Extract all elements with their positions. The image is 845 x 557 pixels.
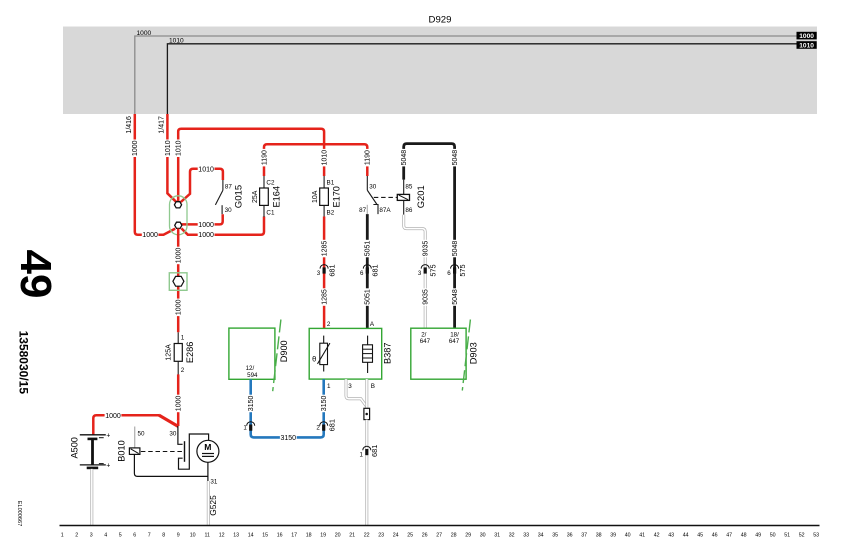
svg-text:D903: D903 (469, 342, 479, 364)
splice junction box (364, 408, 370, 419)
svg-text:87A: 87A (379, 207, 391, 214)
svg-text:37: 37 (581, 533, 587, 539)
svg-text:42: 42 (654, 533, 660, 539)
svg-text:31: 31 (494, 533, 500, 539)
starter relay coil B010 (116, 440, 207, 476)
svg-text:1000: 1000 (176, 396, 183, 412)
svg-text:1/416: 1/416 (126, 116, 133, 134)
svg-text:3: 3 (348, 383, 352, 390)
switch G015 (215, 180, 244, 214)
svg-text:A500: A500 (69, 437, 79, 458)
svg-text:87: 87 (225, 183, 233, 190)
svg-text:30: 30 (225, 207, 233, 214)
svg-text:3: 3 (418, 270, 422, 277)
wire 1285 from E170 to B387 pin 2 (320, 217, 328, 329)
svg-text:B2: B2 (327, 210, 335, 217)
svg-text:26: 26 (422, 533, 428, 539)
svg-text:1000: 1000 (176, 248, 183, 264)
svg-text:1010: 1010 (169, 38, 184, 45)
svg-text:5051: 5051 (365, 241, 372, 257)
svg-text:G525: G525 (208, 495, 218, 516)
wire 1190 rail to fuses and relay contact (260, 144, 371, 176)
svg-text:38: 38 (596, 533, 602, 539)
svg-text:8: 8 (162, 533, 165, 539)
wire 1000 feed in band (135, 30, 797, 114)
svg-text:33: 33 (523, 533, 529, 539)
svg-text:1190: 1190 (365, 150, 372, 165)
svg-text:49: 49 (11, 250, 60, 299)
wire 1010 feed in band (167, 38, 796, 114)
starter motor contact term 30 (169, 426, 182, 444)
svg-text:681: 681 (370, 445, 379, 457)
svg-text:22: 22 (364, 533, 370, 539)
svg-text:1010: 1010 (198, 166, 214, 173)
battery ground wire (90, 469, 93, 526)
svg-text:575: 575 (458, 264, 467, 276)
svg-text:39: 39 (610, 533, 616, 539)
svg-text:B387: B387 (383, 342, 393, 363)
wire 5051 from contact 87 to B387 pin A (364, 214, 372, 328)
svg-text:32: 32 (509, 533, 515, 539)
connector (green stadium) with junctions (170, 196, 188, 235)
svg-text:3: 3 (317, 270, 321, 277)
svg-text:1285: 1285 (322, 241, 329, 257)
svg-text:1010: 1010 (322, 150, 329, 166)
svg-text:5048: 5048 (452, 289, 459, 305)
svg-text:27: 27 (436, 533, 442, 539)
connector 6/681 on wire 5051 (360, 264, 380, 277)
motor M1 (197, 440, 219, 485)
svg-text:52: 52 (799, 533, 805, 539)
svg-text:30: 30 (169, 430, 177, 437)
svg-text:17: 17 (291, 533, 297, 539)
svg-text:18: 18 (306, 533, 312, 539)
svg-text:47: 47 (726, 533, 732, 539)
starter fixed contact and motor loop (179, 434, 209, 469)
svg-text:3150: 3150 (321, 396, 328, 412)
fuse E286 (166, 332, 196, 374)
svg-text:21: 21 (349, 533, 355, 539)
frame ruler (60, 526, 820, 539)
svg-text:G015: G015 (233, 185, 244, 208)
svg-text:1: 1 (359, 452, 363, 459)
junction circle top (174, 202, 181, 208)
svg-text:31: 31 (210, 478, 218, 485)
svg-text:13: 13 (233, 533, 239, 539)
svg-text:1358030/15: 1358030/15 (17, 331, 31, 395)
svg-text:30: 30 (480, 533, 486, 539)
term 50 stub (135, 427, 145, 448)
connector 2/681 on wire 3150 right (316, 419, 336, 432)
svg-text:1190: 1190 (261, 150, 268, 165)
svg-text:7: 7 (148, 533, 151, 539)
svg-text:9: 9 (177, 533, 180, 539)
starter contact bar (184, 441, 186, 462)
svg-text:35: 35 (552, 533, 558, 539)
svg-text:+: + (106, 462, 110, 469)
svg-text:E170: E170 (332, 186, 342, 207)
svg-text:681: 681 (328, 264, 337, 276)
svg-text:647: 647 (420, 338, 431, 345)
svg-text:40: 40 (625, 533, 631, 539)
svg-text:46: 46 (712, 533, 718, 539)
svg-text:30: 30 (369, 183, 377, 190)
svg-text:5048: 5048 (401, 150, 408, 166)
wire 1000 from E286 to starter (174, 374, 182, 426)
node 1010 terminal box (797, 41, 817, 49)
svg-text:10A: 10A (312, 190, 319, 203)
svg-text:D929: D929 (429, 15, 452, 26)
svg-text:49: 49 (755, 533, 761, 539)
thermistor inside B387 (312, 336, 330, 372)
svg-text:5: 5 (119, 533, 122, 539)
svg-text:E286: E286 (185, 342, 195, 363)
svg-text:θ: θ (312, 354, 316, 363)
svg-text:29: 29 (465, 533, 471, 539)
svg-text:1: 1 (243, 425, 247, 432)
svg-text:51: 51 (784, 533, 790, 539)
node D929 bus bar band (63, 15, 817, 114)
svg-text:1000: 1000 (176, 299, 183, 315)
svg-text:9035: 9035 (423, 241, 430, 257)
svg-text:19: 19 (320, 533, 326, 539)
svg-text:36: 36 (567, 533, 573, 539)
wire 3150 loop B387 pin1 to D900 pin12 (247, 379, 331, 442)
svg-text:86: 86 (405, 207, 413, 214)
wire 1010 from 1/417 down to connector (158, 114, 176, 202)
svg-text:50: 50 (138, 430, 146, 437)
svg-text:1: 1 (61, 533, 64, 539)
svg-text:16: 16 (277, 533, 283, 539)
svg-text:2: 2 (327, 321, 331, 328)
svg-text:2: 2 (75, 533, 78, 539)
svg-text:5048: 5048 (452, 241, 459, 257)
svg-text:125A: 125A (166, 344, 173, 361)
svg-text:43: 43 (668, 533, 674, 539)
svg-text:87: 87 (359, 207, 367, 214)
svg-text:44: 44 (683, 533, 689, 539)
svg-text:41: 41 (639, 533, 645, 539)
svg-text:24: 24 (393, 533, 399, 539)
svg-text:G201: G201 (415, 185, 426, 208)
svg-text:1285: 1285 (322, 289, 329, 305)
svg-text:1010: 1010 (799, 42, 814, 49)
svg-text:23: 23 (378, 533, 384, 539)
svg-text:B: B (371, 383, 375, 390)
svg-text:5048: 5048 (452, 150, 459, 166)
svg-text:3150: 3150 (281, 435, 297, 442)
svg-text:1010: 1010 (165, 140, 172, 156)
svg-text:9035: 9035 (423, 289, 430, 305)
svg-text:15: 15 (262, 533, 268, 539)
svg-text:681: 681 (371, 264, 380, 276)
ground G525 (208, 481, 218, 526)
connector 6/575 on wire 5048 (447, 264, 467, 277)
connector 1 on wire 3150 left (243, 422, 254, 432)
svg-text:E164: E164 (272, 186, 282, 207)
wire 1010 branch from horizontal rail (174, 129, 324, 203)
svg-text:34: 34 (538, 533, 544, 539)
svg-text:12: 12 (219, 533, 225, 539)
svg-text:1000: 1000 (198, 222, 214, 229)
svg-text:11: 11 (204, 533, 210, 539)
svg-text:1/417: 1/417 (158, 116, 165, 134)
svg-text:B010: B010 (116, 440, 126, 461)
svg-text:C1: C1 (266, 210, 275, 217)
wire 1010 hook to switch G015 term 87 (181, 165, 223, 202)
svg-text:1010: 1010 (176, 140, 183, 156)
svg-text:2: 2 (316, 425, 320, 432)
relay contact G201 30/87/87A (359, 176, 397, 214)
heater resistor inside B387 (363, 336, 373, 373)
svg-text:M: M (204, 442, 211, 452)
svg-text:14: 14 (248, 533, 254, 539)
wire 1000 bus right to fuse E164 (181, 217, 264, 240)
battery A500 (69, 432, 110, 469)
svg-text:85: 85 (405, 183, 413, 190)
wire 1000 down to E286 (174, 229, 182, 333)
relay G201 coil (397, 180, 426, 215)
svg-text:575: 575 (429, 264, 438, 276)
ECU D900 box (229, 320, 289, 392)
wire 1000 from 1/416 down to bus (126, 114, 175, 239)
svg-text:53: 53 (813, 533, 819, 539)
svg-text:25A: 25A (252, 190, 259, 203)
wire 5048 supply rail (400, 144, 459, 329)
svg-text:3: 3 (90, 533, 93, 539)
connector 3/681 on wire 1285 (317, 264, 337, 277)
svg-text:C2: C2 (266, 179, 275, 186)
fuse E164 (252, 176, 282, 217)
svg-text:6: 6 (133, 533, 136, 539)
svg-text:50: 50 (770, 533, 776, 539)
svg-text:10: 10 (190, 533, 196, 539)
connector 1/681 on gray wire (359, 445, 379, 459)
svg-text:28: 28 (451, 533, 457, 539)
svg-text:1000: 1000 (799, 33, 814, 40)
svg-text:D900: D900 (279, 340, 289, 362)
svg-text:6: 6 (360, 270, 364, 277)
wire 1000 battery feed to starter term 30 (93, 412, 178, 435)
junction circle bottom (175, 222, 182, 228)
svg-text:+: + (106, 432, 110, 439)
svg-text:5051: 5051 (365, 289, 372, 305)
svg-text:20: 20 (335, 533, 341, 539)
svg-text:48: 48 (741, 533, 747, 539)
svg-text:2: 2 (181, 367, 185, 374)
svg-text:1000: 1000 (198, 232, 214, 239)
page number 49 (11, 250, 60, 299)
wire down to connector 1/681 and frame (365, 420, 368, 526)
svg-text:3150: 3150 (248, 396, 255, 412)
svg-text:594: 594 (247, 372, 258, 379)
svg-text:1: 1 (327, 383, 331, 390)
svg-text:45: 45 (697, 533, 703, 539)
node 1000 terminal box (797, 32, 817, 40)
connector 3/575 on wire 9035 (418, 264, 438, 277)
svg-text:1000: 1000 (142, 232, 158, 239)
wire 9035 from coil 86 to D903 (404, 215, 430, 328)
plot id EL000667 (16, 501, 22, 527)
svg-text:25: 25 (407, 533, 413, 539)
wire from B387 pin B (367, 379, 375, 408)
wire 1000 switch return to connector (181, 214, 223, 229)
wire from B387 pin 3 (346, 379, 367, 407)
svg-text:1000: 1000 (105, 413, 121, 420)
fuse E170 (312, 176, 342, 217)
flame glow plug B387 box (309, 321, 392, 379)
svg-text:681: 681 (328, 419, 337, 431)
document number 1358030/15 (17, 331, 31, 395)
ECU D903 box (411, 320, 479, 391)
svg-text:4: 4 (104, 533, 107, 539)
svg-text:EL000667: EL000667 (16, 501, 22, 527)
svg-text:1000: 1000 (137, 30, 152, 37)
svg-text:1: 1 (181, 335, 185, 342)
svg-text:B1: B1 (327, 179, 335, 186)
svg-text:1000: 1000 (132, 140, 139, 156)
inline connector (hexagon) (169, 273, 187, 291)
svg-text:647: 647 (449, 338, 460, 345)
svg-text:6: 6 (447, 270, 451, 277)
